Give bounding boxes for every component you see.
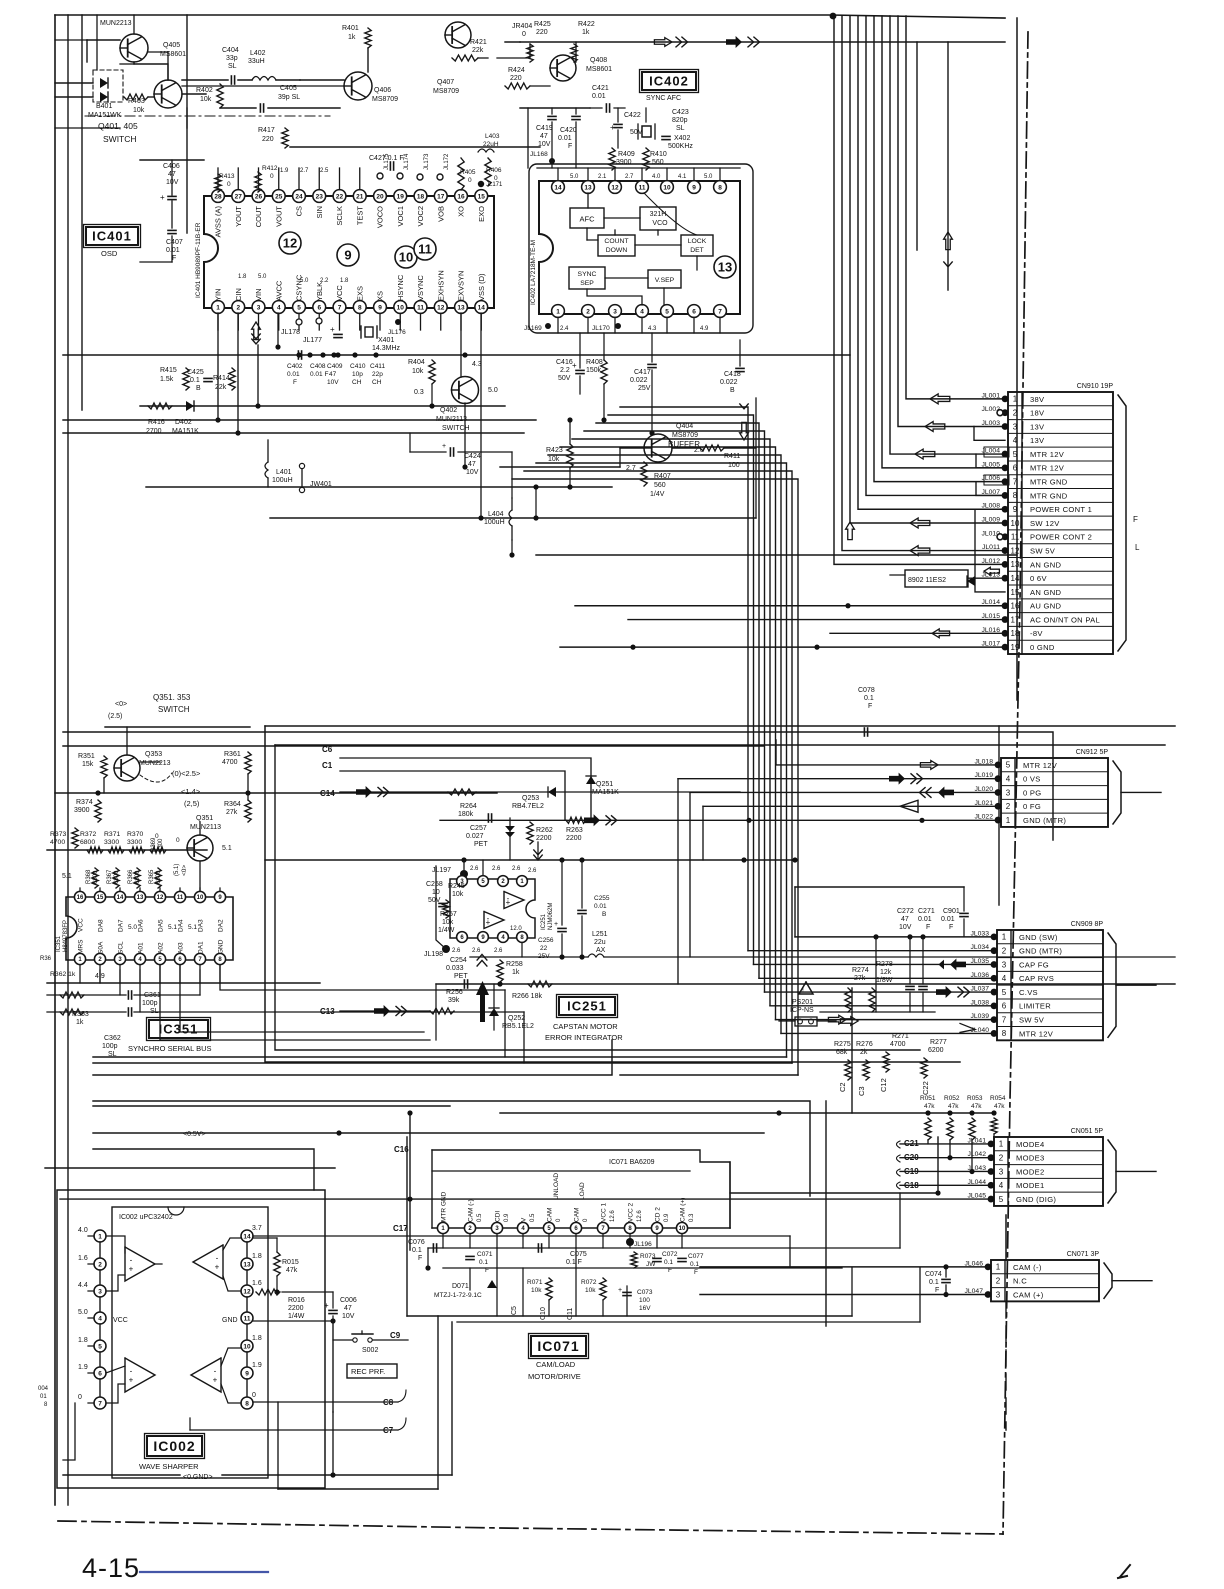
svg-text:2.7: 2.7 — [625, 174, 634, 180]
svg-text:VSYNC: VSYNC — [416, 275, 425, 301]
svg-text:3300: 3300 — [104, 839, 119, 846]
svg-text:R415: R415 — [160, 367, 177, 374]
IC351 pin 13 — [134, 891, 145, 902]
svg-text:13: 13 — [137, 895, 144, 901]
wire x134 vertical — [133, 15, 135, 34]
svg-text:18V: 18V — [1030, 409, 1045, 418]
svg-text:C409: C409 — [327, 363, 343, 370]
svg-text:A02: A02 — [158, 942, 165, 954]
svg-text:R275: R275 — [834, 1041, 851, 1048]
svg-text:YOUT: YOUT — [234, 206, 243, 227]
wire y1489 bottom rail — [278, 1488, 438, 1490]
svg-text:1.5k: 1.5k — [160, 376, 174, 383]
svg-text:C6: C6 — [322, 745, 333, 754]
svg-text:(5.1): (5.1) — [174, 864, 180, 876]
IC401 pin 6 — [313, 301, 326, 314]
svg-text:18: 18 — [417, 193, 425, 200]
wire y64 stub — [120, 63, 134, 65]
svg-text:220: 220 — [262, 136, 274, 143]
svg-text:1.8: 1.8 — [252, 1335, 262, 1342]
IC002 pin 14 — [241, 1230, 253, 1242]
IC401 pin 7 — [333, 301, 346, 314]
svg-text:C22: C22 — [921, 1081, 930, 1095]
svg-text:X401: X401 — [378, 337, 394, 344]
svg-text:R36: R36 — [40, 956, 52, 962]
svg-text:12.0: 12.0 — [510, 926, 522, 932]
svg-text:DA1: DA1 — [198, 941, 205, 954]
svg-text:3: 3 — [257, 304, 261, 311]
svg-text:4700: 4700 — [50, 839, 65, 846]
svg-text:X402: X402 — [674, 135, 690, 142]
IC401 pin 3 — [252, 301, 265, 314]
op-amp IC002 C — [125, 1358, 155, 1392]
svg-text:+: + — [486, 918, 491, 927]
svg-text:180k: 180k — [458, 811, 474, 818]
svg-text:CDI: CDI — [495, 1211, 502, 1222]
svg-text:F: F — [485, 1267, 489, 1274]
wire CN910 row8 jumper from row7 — [976, 482, 1005, 496]
wire IC071 bottom rail y1316 — [407, 1315, 852, 1317]
svg-text:R264: R264 — [460, 803, 477, 810]
svg-text:AN GND: AN GND — [1030, 588, 1062, 597]
svg-text:0.1: 0.1 — [864, 695, 874, 702]
IC401 internal circled 12 — [279, 232, 301, 254]
svg-text:0.033: 0.033 — [446, 965, 464, 972]
wire C8 line — [253, 1401, 398, 1403]
svg-text:MS8709: MS8709 — [433, 88, 459, 95]
wire y1248 rail — [428, 1247, 900, 1249]
svg-text:0.022: 0.022 — [720, 379, 738, 386]
svg-text:R368: R368 — [86, 869, 92, 884]
svg-text:1.9: 1.9 — [252, 1362, 262, 1369]
svg-text:CIN: CIN — [234, 288, 243, 301]
svg-text:EXO: EXO — [477, 206, 486, 222]
svg-text:0.3: 0.3 — [689, 1213, 695, 1222]
svg-text:SCL: SCL — [118, 941, 125, 954]
svg-text:1: 1 — [1006, 816, 1011, 825]
svg-text:MTZJ-1-72-9.1C: MTZJ-1-72-9.1C — [434, 1292, 482, 1299]
label REC PRF box — [347, 1364, 397, 1378]
IC071 body sides and pin rail — [432, 1227, 730, 1229]
svg-text:100p: 100p — [142, 1000, 158, 1007]
svg-text:JL173: JL173 — [424, 153, 430, 170]
svg-text:27: 27 — [235, 193, 243, 200]
svg-text:15: 15 — [1011, 588, 1020, 597]
svg-text:IC251: IC251 — [567, 999, 607, 1014]
svg-text:C17: C17 — [393, 1224, 408, 1233]
jumper JL168 — [549, 158, 555, 164]
svg-text:33uH: 33uH — [248, 58, 265, 65]
IC402 pin 9 — [688, 181, 701, 194]
svg-text:0: 0 — [227, 181, 231, 188]
IC402 circled 13 — [714, 256, 736, 278]
svg-text:6: 6 — [317, 304, 321, 311]
svg-text:6200: 6200 — [928, 1047, 944, 1054]
svg-text:100uH: 100uH — [484, 519, 505, 526]
wire Q404 collector rail — [672, 447, 700, 449]
svg-text:C255: C255 — [594, 895, 610, 902]
svg-text:CAP RVS: CAP RVS — [1019, 974, 1054, 983]
svg-text:TEST: TEST — [355, 206, 364, 226]
svg-text:C10: C10 — [540, 1307, 547, 1320]
transistor Q353 — [114, 755, 140, 781]
IC251 pin 6 bottom — [457, 932, 468, 943]
svg-text:4.0: 4.0 — [652, 174, 661, 180]
connector CN910 19P — [1008, 392, 1113, 654]
wire top rail dot — [830, 13, 837, 20]
wire Q401 collector to top rail — [134, 62, 168, 80]
svg-text:IC401 HB9089PF-11B-ER: IC401 HB9089PF-11B-ER — [195, 222, 202, 298]
wire pin14 column down — [480, 313, 482, 518]
wire long y1057 — [93, 1056, 787, 1058]
svg-text:JL011: JL011 — [982, 544, 1000, 551]
svg-text:12.6: 12.6 — [637, 1210, 643, 1222]
svg-text:+: + — [572, 361, 577, 370]
jumper JL172 — [437, 174, 443, 180]
svg-text:2.5: 2.5 — [320, 168, 329, 174]
svg-text:5: 5 — [665, 308, 669, 315]
wire x652 vertical — [651, 370, 653, 433]
IC402 pin 1 — [552, 305, 565, 318]
svg-text:10: 10 — [399, 250, 413, 265]
svg-text:5.1: 5.1 — [62, 873, 72, 880]
svg-text:MUN2213: MUN2213 — [100, 20, 132, 27]
wire x512 L404 vertical — [511, 452, 513, 498]
wire CN912 row4 feed — [703, 805, 998, 807]
IC002 pin 12 — [241, 1285, 253, 1297]
wire CN909 row1 feed — [795, 936, 994, 938]
wire Q353 connections — [126, 727, 128, 755]
svg-text:38V: 38V — [1030, 395, 1045, 404]
dashed curve Q353 — [140, 773, 172, 782]
svg-text:C076: C076 — [408, 1239, 425, 1246]
svg-text:47k: 47k — [286, 1267, 298, 1274]
IC402 pin 2 — [582, 305, 595, 318]
svg-text:8: 8 — [44, 1402, 48, 1408]
svg-text:1.8: 1.8 — [238, 274, 247, 280]
svg-text:SW 5V: SW 5V — [1030, 546, 1056, 555]
border frame top line — [55, 15, 1005, 18]
svg-text:0.01: 0.01 — [166, 247, 180, 254]
svg-text:MS8601: MS8601 — [586, 66, 612, 73]
svg-text:8: 8 — [1002, 1029, 1007, 1038]
svg-text:JL022: JL022 — [974, 814, 993, 821]
wire long y1149 — [93, 1149, 314, 1190]
svg-text:MUN2113: MUN2113 — [190, 824, 221, 831]
svg-text:MODE4: MODE4 — [1016, 1140, 1045, 1149]
IC401 pin 14 — [475, 301, 488, 314]
svg-text:PS201: PS201 — [792, 999, 813, 1006]
IC351 bottom stubs — [79, 965, 81, 983]
svg-text:9: 9 — [344, 248, 351, 263]
IC351 pin 12 — [154, 891, 165, 902]
IC401 pin 5 — [293, 301, 306, 314]
svg-text:R263: R263 — [566, 827, 583, 834]
svg-text:LIMITER: LIMITER — [1019, 1002, 1051, 1011]
svg-text:1/4W: 1/4W — [288, 1313, 305, 1320]
wire cap column x172 — [171, 160, 173, 195]
svg-text:4: 4 — [1013, 436, 1018, 445]
wire vertical x1006 near CN071 — [1005, 1215, 1007, 1260]
svg-text:100: 100 — [639, 1297, 650, 1304]
svg-text:Q351. 353: Q351. 353 — [153, 693, 191, 702]
svg-text:C420: C420 — [560, 127, 577, 134]
IC351 pin 9 — [214, 891, 225, 902]
wire x605 vertical below IC402 — [603, 384, 605, 420]
IC401 pin 21 — [353, 190, 366, 203]
IC351 pin 1 — [74, 953, 85, 964]
svg-text:F: F — [694, 1269, 698, 1276]
svg-text:C410: C410 — [350, 363, 366, 370]
svg-text:1/4W: 1/4W — [438, 927, 455, 934]
wire vertical x999 near CN912 — [998, 726, 1000, 905]
op-amp A IC251 — [504, 892, 524, 909]
svg-text:6: 6 — [1013, 464, 1018, 473]
wire CN909 feeds from bundle — [748, 950, 994, 952]
wire C424 row — [410, 451, 446, 453]
svg-text:33p: 33p — [226, 55, 238, 62]
IC351 body — [66, 897, 233, 960]
IC401 pin 25 — [272, 190, 285, 203]
wire pins to rail — [482, 860, 484, 875]
svg-text:C1: C1 — [322, 761, 333, 770]
svg-text:L401: L401 — [276, 469, 292, 476]
IC401 pin 12 — [434, 301, 447, 314]
svg-text:CN051 5P: CN051 5P — [1071, 1128, 1104, 1135]
svg-text:B: B — [602, 911, 606, 918]
svg-text:C404: C404 — [222, 47, 239, 54]
svg-text:R410: R410 — [650, 151, 667, 158]
open arrow under pin3 up — [252, 322, 261, 340]
svg-text:JL003: JL003 — [981, 420, 1000, 427]
IC071 pin 7 — [597, 1222, 608, 1233]
svg-text:1: 1 — [1002, 933, 1007, 942]
svg-text:1.8: 1.8 — [78, 1337, 88, 1344]
svg-text:JL036: JL036 — [970, 972, 989, 979]
wire y818 R262 rail — [440, 819, 998, 821]
transistor Q404 buffer — [644, 434, 672, 462]
svg-text:L403: L403 — [485, 133, 500, 140]
svg-text:R424: R424 — [508, 67, 525, 74]
svg-text:4.9: 4.9 — [700, 326, 709, 332]
svg-text:R423: R423 — [546, 447, 563, 454]
svg-text:10V: 10V — [327, 379, 339, 386]
wire IC401 bottom stubs — [217, 313, 219, 330]
block V.SEP — [648, 270, 681, 288]
resistor R051 — [925, 1118, 931, 1140]
switch section dash line — [85, 115, 330, 117]
svg-text:RB4.7EL2: RB4.7EL2 — [512, 803, 544, 810]
block 321H VCO — [640, 207, 676, 230]
svg-text:17: 17 — [1011, 615, 1020, 624]
resistor R053 — [969, 1118, 975, 1140]
svg-text:R245: R245 — [448, 883, 465, 890]
svg-text:JR404: JR404 — [512, 23, 532, 30]
terminal pins 5 6 — [296, 319, 302, 325]
corner pen mark — [1118, 1565, 1130, 1578]
IC351 pin 8 — [214, 953, 225, 964]
svg-text:0.01: 0.01 — [287, 371, 300, 378]
svg-text:JL039: JL039 — [970, 1013, 989, 1020]
IC401 pin 24 — [293, 190, 306, 203]
IC251 pin 5 top — [478, 876, 489, 887]
svg-text:C078: C078 — [858, 687, 875, 694]
svg-text:R351: R351 — [78, 753, 95, 760]
arrow solid C14 — [356, 786, 372, 798]
svg-text:0.01: 0.01 — [941, 916, 955, 923]
svg-text:0.9: 0.9 — [664, 1213, 670, 1222]
arrow open after PS201 — [840, 1017, 858, 1026]
svg-text:C408: C408 — [310, 363, 326, 370]
svg-text:R374: R374 — [76, 799, 93, 806]
svg-text:2.6: 2.6 — [470, 866, 479, 872]
svg-text:10V: 10V — [342, 1313, 355, 1320]
wire Q406 collector — [300, 79, 344, 81]
svg-text:+: + — [213, 1375, 218, 1384]
svg-text:A01: A01 — [138, 942, 145, 954]
svg-text:<0>: <0> — [181, 865, 188, 876]
svg-text:19: 19 — [1011, 643, 1020, 652]
wire y518 rail — [270, 517, 756, 519]
resistors R368 R367 R366 R365 vertical — [92, 868, 98, 888]
svg-text:Q251: Q251 — [596, 781, 613, 788]
svg-text:C425: C425 — [187, 369, 204, 376]
svg-text:REC PRF.: REC PRF. — [351, 1367, 385, 1376]
svg-text:10V: 10V — [899, 924, 912, 931]
wire left vertical x187 — [186, 15, 188, 233]
svg-text:5.0: 5.0 — [704, 174, 713, 180]
svg-text:C006: C006 — [340, 1297, 357, 1304]
IC401 internal circled 10 — [395, 246, 417, 268]
svg-text:AVCC: AVCC — [274, 280, 283, 301]
svg-text:12: 12 — [157, 895, 164, 901]
svg-text:14: 14 — [117, 895, 124, 901]
svg-text:R365: R365 — [149, 869, 155, 884]
svg-text:0.1: 0.1 — [479, 1259, 488, 1266]
svg-text:1: 1 — [216, 304, 220, 311]
svg-text:11: 11 — [418, 242, 432, 257]
wire left vertical x82 — [81, 15, 83, 410]
op-amp B IC251 — [484, 912, 504, 929]
svg-text:0.1: 0.1 — [929, 1279, 939, 1286]
svg-text:DET: DET — [690, 247, 704, 254]
wire R403 to Q401 — [148, 96, 154, 98]
wire vertical x948 with up arrow — [947, 42, 949, 290]
wire CN910 row17 feed — [628, 619, 1005, 621]
wire pin4 column down — [277, 313, 279, 347]
wire CN910 row11 stub — [997, 534, 1003, 540]
svg-text:10k: 10k — [548, 456, 560, 463]
svg-text:C071: C071 — [477, 1251, 493, 1258]
svg-text:Q405: Q405 — [163, 42, 180, 49]
IC251 body — [450, 879, 535, 938]
svg-text:11: 11 — [639, 184, 646, 191]
svg-text:13V: 13V — [1030, 422, 1045, 431]
svg-text:2.2: 2.2 — [320, 278, 329, 284]
svg-text:28: 28 — [214, 193, 222, 200]
transistor Q401 — [154, 80, 182, 108]
wire y995 rail — [47, 994, 126, 996]
svg-text:IC002 uPC32402: IC002 uPC32402 — [119, 1214, 173, 1221]
IC402 top rail — [537, 167, 740, 169]
svg-text:0.1: 0.1 — [412, 1247, 422, 1254]
svg-text:C422: C422 — [624, 112, 641, 119]
svg-text:C5: C5 — [511, 1306, 518, 1315]
IC071 pin 4 — [517, 1222, 528, 1233]
svg-text:JL169: JL169 — [524, 325, 542, 332]
svg-text:0: 0 — [270, 173, 274, 180]
svg-text:R277: R277 — [930, 1039, 947, 1046]
border left vertical 2 — [67, 15, 69, 1505]
svg-text:C423: C423 — [672, 109, 689, 116]
svg-text:5: 5 — [1002, 988, 1007, 997]
svg-text:3: 3 — [98, 1288, 102, 1295]
svg-text:10: 10 — [197, 895, 204, 901]
IC002 pin 10 — [241, 1340, 253, 1352]
svg-text:10: 10 — [397, 304, 405, 311]
wire bottom verticals x278 x332 — [277, 1402, 279, 1489]
svg-text:3900: 3900 — [616, 159, 632, 166]
wire Q401 emitter rail y75 — [182, 85, 344, 87]
IC401 pin 9 — [374, 301, 387, 314]
svg-text:47k: 47k — [948, 1103, 959, 1110]
svg-text:0.027: 0.027 — [466, 833, 484, 840]
svg-text:22: 22 — [336, 193, 344, 200]
svg-text:220: 220 — [510, 75, 522, 82]
IC402 pin 10 — [661, 181, 674, 194]
svg-text:3: 3 — [999, 1167, 1004, 1176]
IC401 pin 23 — [313, 190, 326, 203]
svg-text:8: 8 — [1013, 491, 1018, 500]
transistor Q402 — [452, 377, 479, 404]
svg-text:DA8: DA8 — [98, 919, 105, 932]
svg-text:-: - — [130, 1367, 133, 1376]
IC002 pin 1 — [94, 1230, 106, 1242]
svg-text:YBLK: YBLK — [315, 282, 324, 301]
svg-text:CAM (-): CAM (-) — [468, 1199, 475, 1222]
svg-text:JL034: JL034 — [970, 944, 989, 951]
solid arrow up tall — [476, 981, 489, 1022]
wire vertical x756 top — [755, 398, 757, 518]
wire x570 R423 column — [569, 420, 571, 444]
svg-text:L402: L402 — [250, 50, 266, 57]
svg-text:VCC: VCC — [113, 1317, 128, 1324]
svg-text:AX: AX — [596, 947, 606, 954]
IC402 pin 3 — [609, 305, 622, 318]
wire Q405 base — [87, 39, 120, 41]
svg-text:27k: 27k — [226, 809, 238, 816]
svg-text:COUNT: COUNT — [604, 238, 628, 245]
IC402 internal wires — [587, 193, 589, 208]
svg-text:47: 47 — [540, 133, 548, 140]
wire x900 bend down right — [899, 1193, 901, 1248]
arrow chevrons top y42 first — [654, 38, 672, 47]
svg-text:R402: R402 — [196, 87, 213, 94]
wire C7 line — [190, 1429, 398, 1431]
svg-text:500KHz: 500KHz — [668, 143, 693, 150]
svg-text:2: 2 — [98, 1261, 102, 1268]
svg-text:CAM: CAM — [574, 1208, 581, 1222]
svg-text:R054: R054 — [990, 1095, 1006, 1102]
svg-text:6800: 6800 — [135, 870, 141, 884]
svg-text:4.0: 4.0 — [78, 1227, 88, 1234]
wire bus bundle B staircase — [620, 407, 748, 951]
svg-text:+: + — [442, 443, 446, 450]
svg-text:2: 2 — [236, 304, 240, 311]
svg-text:7: 7 — [718, 308, 722, 315]
IC351 pin 6 — [174, 953, 185, 964]
svg-text:50V: 50V — [558, 375, 571, 382]
